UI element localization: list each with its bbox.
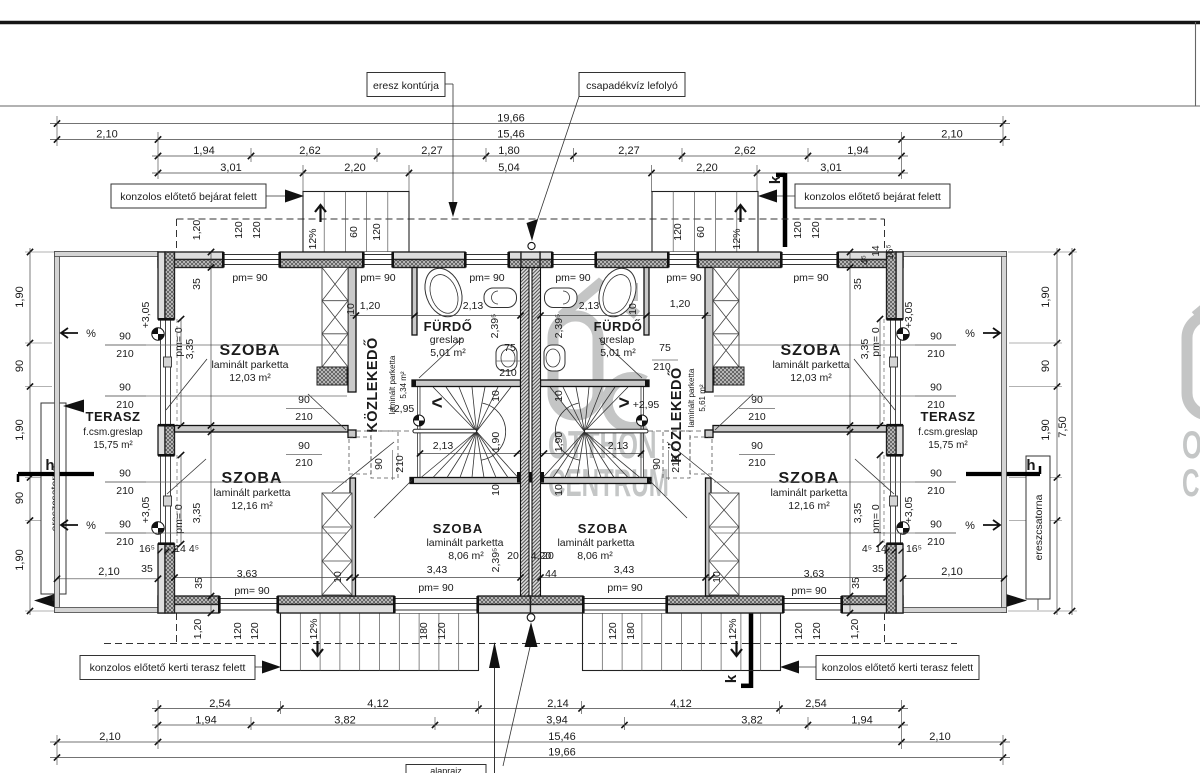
svg-text:konzolos előtető bejárat felet: konzolos előtető bejárat felett [804, 191, 941, 203]
svg-text:SZOBA: SZOBA [220, 342, 281, 359]
svg-text:laminált parketta: laminált parketta [772, 359, 849, 371]
svg-text:3,35: 3,35 [852, 503, 864, 524]
svg-text:konzolos előtető kerti terasz: konzolos előtető kerti terasz felett [90, 662, 246, 674]
svg-text:3,01: 3,01 [220, 162, 241, 174]
dashed eaves contour bottom [104, 643, 957, 645]
svg-text:12,03 m²: 12,03 m² [790, 372, 832, 384]
svg-text:KÖZLEKEDŐ: KÖZLEKEDŐ [363, 337, 381, 433]
svg-text:2,13: 2,13 [579, 300, 600, 312]
interior dim lines left unit [105, 344, 347, 346]
bottom dimension row 1,94/3,82/3,94/3,82/1,94 [152, 724, 908, 726]
svg-text:1,90: 1,90 [14, 286, 26, 307]
door swing terrace/szoba1 [854, 359, 895, 410]
svg-text:90: 90 [651, 458, 663, 470]
svg-text:210: 210 [748, 457, 766, 469]
party wall junction block [531, 472, 545, 483]
downpipe circle (bottom) [527, 614, 535, 622]
svg-text:75: 75 [504, 342, 516, 354]
svg-text:180: 180 [418, 622, 430, 640]
entrance canopy (right) [652, 192, 758, 253]
corridor west wall [348, 268, 356, 393]
svg-text:210: 210 [670, 455, 682, 473]
bathroom south wall [541, 380, 650, 387]
svg-text:90: 90 [119, 331, 131, 343]
svg-text:1,94: 1,94 [851, 715, 872, 727]
svg-text:1,94: 1,94 [847, 145, 868, 157]
svg-text:35: 35 [193, 577, 205, 589]
stair walking arc [482, 403, 506, 460]
dashed door projection (terrace doors) [883, 319, 885, 425]
svg-text:2,20: 2,20 [344, 162, 365, 174]
svg-text:+3,05: +3,05 [140, 302, 152, 329]
svg-text:4,12: 4,12 [367, 698, 388, 710]
svg-text:1,94: 1,94 [193, 145, 214, 157]
svg-text:210: 210 [295, 457, 313, 469]
svg-text:35: 35 [191, 278, 203, 290]
label box: ereszcsatorna (right) [1026, 456, 1050, 599]
label box: konzolos eloteto kerti terasz felett (left) [80, 656, 255, 680]
watermark roof icon [561, 284, 637, 316]
bathtub [419, 263, 469, 322]
svg-text:210: 210 [394, 455, 406, 473]
svg-text:2,10: 2,10 [98, 566, 119, 578]
label box: konzolos eloteto bejarat felett (left) [111, 184, 266, 208]
svg-text:csapadékvíz lefolyó: csapadékvíz lefolyó [586, 80, 678, 92]
svg-text:90: 90 [119, 519, 131, 531]
right vertical dim 7,50 [1071, 248, 1073, 615]
svg-text:3,82: 3,82 [741, 715, 762, 727]
arrow to right canopy [758, 190, 777, 203]
svg-text:2,39⁵: 2,39⁵ [553, 314, 565, 339]
bathroom/corridor dim line [350, 315, 521, 317]
svg-text:pm= 90: pm= 90 [666, 272, 701, 284]
svg-text:2,13: 2,13 [433, 440, 454, 452]
svg-text:+3,05: +3,05 [903, 302, 915, 329]
svg-text:pm= 90: pm= 90 [234, 585, 269, 597]
arrow to left canopy [285, 190, 304, 203]
svg-text:15,46: 15,46 [548, 731, 576, 743]
svg-text:35: 35 [850, 577, 862, 589]
svg-text:1,90: 1,90 [1040, 419, 1052, 440]
svg-text:laminált parketta: laminált parketta [557, 537, 634, 549]
gutter arrow (left) [63, 400, 84, 413]
top dimension row 3,01..3,01 [152, 172, 908, 174]
party wall junction block [517, 472, 531, 483]
svg-text:5,61 m²: 5,61 m² [698, 384, 707, 411]
door leaf dashed (szoba3) [663, 431, 690, 478]
svg-text:12%: 12% [727, 618, 739, 639]
svg-text:f.csm.greslap: f.csm.greslap [918, 427, 978, 438]
svg-text:60: 60 [695, 226, 707, 238]
svg-text:210: 210 [116, 348, 134, 360]
bottom wall windows [783, 596, 842, 613]
svg-text:90: 90 [298, 440, 310, 452]
svg-text:pm= 90: pm= 90 [418, 582, 453, 594]
door swing hall/szoba1 [715, 394, 753, 430]
door swing terrace/szoba2 [855, 459, 894, 494]
svg-text:210: 210 [927, 485, 945, 497]
svg-text:1,20: 1,20 [670, 298, 691, 310]
svg-text:pm= 90: pm= 90 [793, 272, 828, 284]
svg-text:3,35: 3,35 [191, 503, 203, 524]
stair treads [585, 387, 629, 432]
svg-text:2,54: 2,54 [805, 698, 826, 710]
frame: horizontal rule [0, 105, 1200, 107]
svg-text:pm= 0: pm= 0 [173, 504, 185, 534]
svg-text:120: 120 [672, 223, 684, 241]
svg-text:90: 90 [373, 458, 385, 470]
svg-text:pm= 90: pm= 90 [469, 272, 504, 284]
svg-text:12%: 12% [307, 228, 319, 249]
garden canopy (right) [583, 613, 781, 671]
svg-text:pm= 90: pm= 90 [360, 272, 395, 284]
svg-text:2,62: 2,62 [299, 145, 320, 157]
svg-text:15,75 m²: 15,75 m² [93, 440, 133, 451]
garden canopy (left) [281, 613, 479, 671]
bottom dimension row 19,66 [50, 757, 1010, 759]
washbasin [545, 288, 578, 308]
svg-text:120: 120 [607, 622, 619, 640]
left vertical dim chain [29, 248, 31, 615]
svg-text:konzolos előtető kerti terasz: konzolos előtető kerti terasz felett [822, 663, 973, 674]
svg-text:90: 90 [119, 468, 131, 480]
svg-text:210: 210 [748, 411, 766, 423]
svg-text:210: 210 [499, 367, 517, 379]
svg-text:3,82: 3,82 [334, 715, 355, 727]
wall layer ticks at corner doors [158, 549, 163, 554]
svg-text:FÜRDŐ: FÜRDŐ [424, 319, 473, 334]
label box: ereszcsatorna (left) [41, 403, 66, 594]
left wall openings (terrace doors) [887, 319, 904, 426]
svg-text:laminált parketta: laminált parketta [687, 368, 696, 427]
svg-text:120: 120 [792, 221, 804, 239]
gutter arrow (left corner) [34, 594, 55, 608]
terrace door sill blocks [164, 357, 172, 367]
svg-text:19,66: 19,66 [548, 747, 576, 759]
downpipe circle (top) [528, 242, 535, 249]
svg-text:laminált parketta: laminált parketta [770, 487, 847, 499]
door swing hall/szoba2 [667, 442, 729, 492]
svg-text:greslap: greslap [430, 334, 465, 346]
svg-text:120: 120 [793, 622, 805, 640]
entrance axis arrow (bottom) [494, 668, 496, 773]
svg-text:1,20: 1,20 [849, 619, 861, 640]
svg-text:+3,05: +3,05 [140, 497, 152, 524]
svg-text:16⁵: 16⁵ [885, 244, 896, 259]
svg-text:h: h [1026, 457, 1035, 474]
left exterior wall segments [896, 252, 903, 319]
svg-text:10: 10 [332, 571, 344, 583]
svg-text:pm= 90: pm= 90 [607, 582, 642, 594]
svg-text:2,10: 2,10 [96, 129, 117, 141]
svg-text:75: 75 [659, 342, 671, 354]
top wall windows [223, 252, 280, 268]
terrace outline [55, 252, 60, 613]
svg-text:8,06 m²: 8,06 m² [577, 550, 613, 562]
watermark CENTRUM [548, 461, 669, 504]
svg-text:2,39⁵: 2,39⁵ [489, 314, 501, 339]
left exterior wall segments [158, 252, 165, 319]
leader arrow (eresz konturja) [449, 202, 458, 217]
svg-text:2,27: 2,27 [618, 145, 639, 157]
svg-text:90: 90 [930, 331, 942, 343]
svg-text:laminált parketta: laminált parketta [213, 487, 290, 499]
svg-text:pm= 90: pm= 90 [791, 585, 826, 597]
svg-text:SZOBA: SZOBA [779, 470, 840, 487]
stair south wall [410, 478, 521, 484]
section mark k (top) [783, 173, 788, 247]
svg-text:TERASZ: TERASZ [921, 409, 976, 424]
terrace door sill blocks [890, 357, 898, 367]
svg-text:15,46: 15,46 [497, 129, 525, 141]
svg-text:3,63: 3,63 [237, 568, 258, 580]
svg-text:1,90: 1,90 [553, 432, 565, 453]
top dimension row 1,94..1,94 [152, 155, 908, 157]
svg-text:1,90: 1,90 [1040, 286, 1052, 307]
svg-text:1,20: 1,20 [191, 220, 203, 241]
svg-text:4,12: 4,12 [670, 698, 691, 710]
svg-text:4⁵: 4⁵ [860, 255, 871, 265]
right vertical dim chain [1056, 248, 1058, 615]
svg-text:120: 120 [436, 622, 448, 640]
label box: konzolos eloteto kerti terasz felett (right) [816, 656, 979, 680]
svg-text:SZOBA: SZOBA [781, 342, 842, 359]
svg-text:FÜRDŐ: FÜRDŐ [594, 319, 643, 334]
svg-text:10: 10 [490, 390, 502, 402]
arrow to left garden canopy [262, 661, 281, 674]
svg-text:1,20: 1,20 [360, 300, 381, 312]
door swing terrace/szoba2 [167, 459, 206, 494]
party wall top cap [521, 252, 540, 260]
stair width dim line [417, 453, 520, 455]
svg-text:44: 44 [545, 568, 557, 580]
svg-text:5,01 m²: 5,01 m² [600, 347, 636, 359]
svg-text:35: 35 [872, 563, 884, 575]
stair walking arc [555, 403, 579, 460]
svg-text:90: 90 [930, 519, 942, 531]
door swing bathroom [419, 338, 462, 378]
bottom dimension row 2,54/4,12/2,14/4,12/2,54 [152, 708, 908, 710]
svg-text:1,20: 1,20 [192, 619, 204, 640]
watermark OTTHON [548, 424, 657, 468]
svg-text:12,16 m²: 12,16 m² [231, 500, 273, 512]
bathroom west wall [644, 268, 649, 336]
dashed eaves contour top [177, 218, 885, 220]
terrace bottom dim 2,10 [57, 578, 158, 580]
door swing szoba3 [649, 480, 687, 518]
svg-text:90: 90 [14, 492, 26, 504]
door swing terrace/szoba1 [166, 359, 207, 410]
toilet [496, 345, 517, 371]
top wall windows [781, 252, 838, 268]
szoba2/szoba3 wall [706, 478, 712, 596]
svg-text:2,27: 2,27 [421, 145, 442, 157]
door leaf dashed (hall/szoba2) [349, 437, 371, 474]
closet szoba2 [322, 493, 352, 595]
label box: eresz konturja [367, 73, 445, 97]
corridor west wall [705, 268, 713, 393]
svg-text:20: 20 [542, 550, 554, 562]
svg-text:12%: 12% [731, 228, 743, 249]
svg-text:2,10: 2,10 [941, 129, 962, 141]
section mark h (left) [18, 472, 94, 476]
svg-text:35: 35 [852, 278, 864, 290]
svg-text:90: 90 [751, 440, 763, 452]
stair treads [433, 387, 477, 432]
svg-text:90: 90 [1040, 360, 1052, 372]
svg-text:2,10: 2,10 [941, 566, 962, 578]
svg-text:CENTRUM: CENTRUM [1182, 461, 1200, 504]
top wall segments [158, 252, 223, 260]
svg-text:90: 90 [119, 382, 131, 394]
stair handrail [413, 429, 477, 433]
svg-text:k: k [723, 674, 740, 683]
svg-text:2,10: 2,10 [99, 731, 120, 743]
left wall openings (terrace doors) [158, 319, 175, 426]
stair south wall [541, 478, 652, 484]
room bottom dim line 3,63/10/3,43 [175, 577, 521, 579]
svg-text:120: 120 [810, 221, 822, 239]
svg-text:2,54: 2,54 [209, 698, 230, 710]
svg-text:pm= 90: pm= 90 [555, 272, 590, 284]
svg-text:3,43: 3,43 [427, 564, 448, 576]
svg-text:14: 14 [871, 245, 882, 257]
svg-text:+3,05: +3,05 [903, 497, 915, 524]
svg-text:90: 90 [930, 468, 942, 480]
svg-text:35: 35 [141, 563, 153, 575]
svg-text:%: % [86, 520, 96, 532]
svg-text:16⁵: 16⁵ [906, 543, 922, 555]
svg-text:120: 120 [371, 223, 383, 241]
svg-text:19,66: 19,66 [497, 113, 525, 125]
stair west railing [643, 387, 645, 477]
svg-text:1,90: 1,90 [14, 419, 26, 440]
label box: konzolos eloteto bejarat felett (right) [795, 184, 950, 208]
svg-text:SZOBA: SZOBA [222, 470, 283, 487]
svg-text:5,01 m²: 5,01 m² [430, 347, 466, 359]
svg-text:greslap: greslap [600, 334, 635, 346]
bathroom west wall [412, 268, 417, 336]
svg-text:210: 210 [295, 411, 313, 423]
top dimension row 19,66 [50, 123, 1010, 125]
svg-text:<: < [431, 393, 442, 414]
svg-text:12%: 12% [308, 618, 320, 639]
svg-text:90: 90 [930, 382, 942, 394]
stair west railing [417, 387, 419, 477]
svg-text:k: k [767, 175, 784, 184]
svg-text:120: 120 [233, 221, 245, 239]
svg-text:+2,95: +2,95 [633, 399, 660, 411]
svg-text:210: 210 [927, 399, 945, 411]
bathtub [593, 263, 643, 322]
level symbols [152, 328, 164, 340]
bathroom south wall [412, 380, 521, 387]
svg-text:SZOBA: SZOBA [433, 521, 484, 536]
wall szoba1/szoba2 [713, 426, 887, 433]
party wall left leaf [521, 268, 530, 597]
svg-text:10: 10 [345, 303, 357, 315]
svg-text:2,62: 2,62 [734, 145, 755, 157]
wall szoba1/szoba2 [175, 426, 349, 433]
svg-text:180: 180 [625, 622, 637, 640]
svg-text:2,13: 2,13 [463, 300, 484, 312]
svg-text:konzolos előtető bejárat felet: konzolos előtető bejárat felett [120, 191, 257, 203]
bottom wall segments [158, 596, 219, 605]
svg-text:120: 120 [811, 622, 823, 640]
svg-text:3,01: 3,01 [820, 162, 841, 174]
label box: csapadekviz lefolyo [579, 73, 685, 97]
svg-text:20: 20 [507, 550, 519, 562]
svg-text:2,10: 2,10 [929, 731, 950, 743]
section mark k (bottom) [749, 613, 754, 688]
svg-text:3,63: 3,63 [804, 568, 825, 580]
watermark O letter [1187, 316, 1200, 415]
door leaf dashed (hall/szoba2) [690, 437, 712, 474]
svg-text:120: 120 [251, 221, 263, 239]
svg-text:1,90: 1,90 [490, 432, 502, 453]
frame: right border [1195, 22, 1197, 106]
LEFT UNIT GEOMETRY [55, 252, 531, 614]
door swing bathroom [599, 338, 642, 378]
svg-text:5,34 m²: 5,34 m² [399, 371, 408, 398]
svg-text:>: > [618, 393, 629, 414]
section mark h (right) [966, 472, 1040, 476]
svg-text:120: 120 [232, 622, 244, 640]
svg-text:4⁵: 4⁵ [189, 543, 199, 555]
svg-text:10: 10 [490, 484, 502, 496]
frame: top border line [0, 21, 1200, 25]
svg-text:210: 210 [116, 536, 134, 548]
door swing hall/szoba2 [332, 442, 394, 492]
RIGHT UNIT GEOMETRY (mirrored) [531, 252, 1007, 614]
svg-text:10: 10 [553, 390, 565, 402]
svg-text:2,13: 2,13 [608, 440, 629, 452]
svg-text:laminált parketta: laminált parketta [211, 359, 288, 371]
svg-text:1,94: 1,94 [195, 715, 216, 727]
svg-text:120: 120 [249, 622, 261, 640]
top dimension row 2,10/15,46/2,10 [50, 139, 1010, 141]
watermark roof icon [1195, 284, 1200, 316]
svg-text:60: 60 [348, 226, 360, 238]
svg-text:10: 10 [553, 484, 565, 496]
watermark CENTRUM [1182, 461, 1200, 504]
svg-text:2,39⁵: 2,39⁵ [490, 548, 502, 573]
svg-text:+2,95: +2,95 [388, 403, 415, 415]
duct box szoba1 [317, 367, 347, 385]
toilet [544, 345, 565, 371]
door swing szoba3 [374, 480, 412, 518]
svg-text:2,20: 2,20 [696, 162, 717, 174]
bottom center box [406, 765, 486, 773]
terrace outline [1002, 252, 1007, 613]
svg-text:12,03 m²: 12,03 m² [229, 372, 271, 384]
svg-text:210: 210 [927, 536, 945, 548]
arrow to right garden canopy [780, 661, 799, 674]
closet szoba1 [322, 268, 348, 368]
svg-text:15,75 m²: 15,75 m² [928, 440, 968, 451]
szoba2/szoba3 wall [350, 478, 356, 596]
stair handrail [585, 429, 649, 433]
top wall segments [838, 252, 903, 260]
duct box szoba1 [714, 367, 744, 385]
svg-text:90: 90 [14, 360, 26, 372]
svg-text:%: % [86, 328, 96, 340]
watermark OTTHON [1182, 424, 1200, 468]
svg-text:3,94: 3,94 [546, 715, 567, 727]
svg-text:16⁵: 16⁵ [139, 543, 155, 555]
bottom wall segments [842, 596, 903, 605]
bottom wall windows [219, 596, 278, 613]
